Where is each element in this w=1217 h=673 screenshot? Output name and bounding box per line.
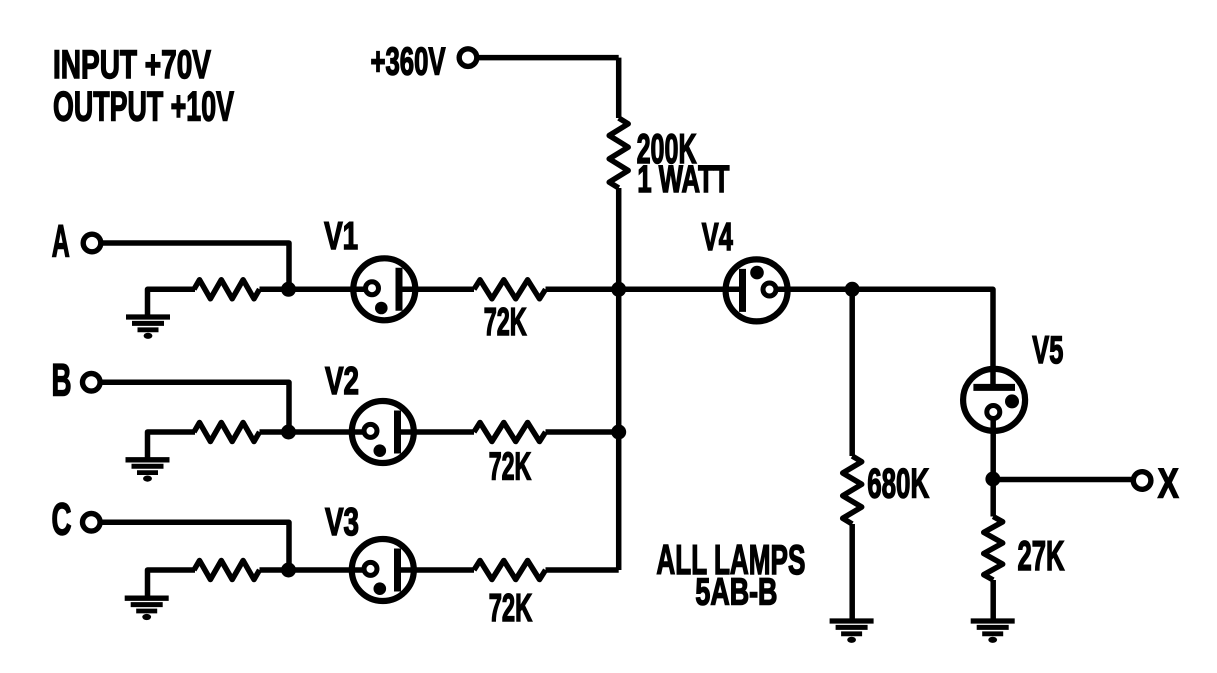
svg-text:72K: 72K (484, 301, 527, 344)
svg-text:1 WATT: 1 WATT (637, 159, 729, 201)
svg-text:V4: V4 (702, 216, 733, 259)
svg-text:OUTPUT +10V: OUTPUT +10V (53, 83, 234, 130)
svg-text:C: C (52, 494, 72, 545)
svg-text:+360V: +360V (371, 41, 446, 84)
svg-text:V3: V3 (325, 501, 359, 544)
svg-text:B: B (52, 354, 72, 405)
svg-text:INPUT +70V: INPUT +70V (53, 43, 211, 87)
svg-text:680K: 680K (867, 460, 929, 507)
svg-text:27K: 27K (1018, 532, 1065, 579)
svg-text:72K: 72K (489, 587, 533, 630)
svg-text:V1: V1 (324, 215, 358, 258)
svg-text:A: A (52, 216, 70, 267)
svg-text:V2: V2 (325, 360, 359, 403)
svg-text:X: X (1158, 459, 1179, 506)
svg-text:72K: 72K (489, 445, 532, 488)
svg-text:V5: V5 (1032, 329, 1063, 372)
svg-text:5AB-B: 5AB-B (695, 572, 777, 614)
